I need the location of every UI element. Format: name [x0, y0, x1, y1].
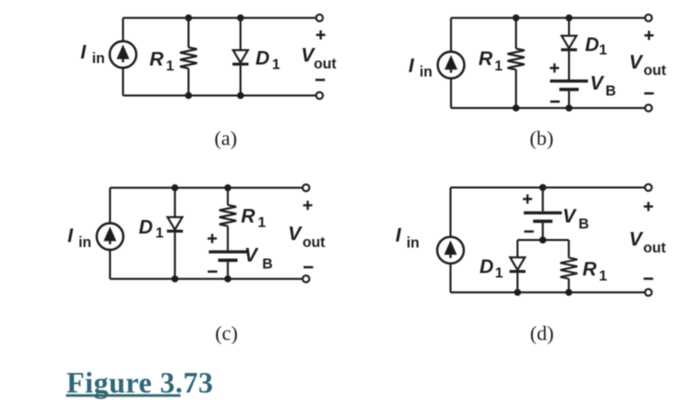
output terminal (a) bottom — [316, 92, 323, 99]
wire (d) middle rail — [518, 239, 569, 241]
junction dot (d) bottom R1 — [565, 289, 572, 296]
junction dot (a) bottom R1 — [185, 92, 192, 99]
wire (d) D1 branch upper — [517, 240, 519, 257]
wire (d) source branch lower — [450, 264, 452, 293]
svg-text:D: D — [480, 256, 494, 278]
diode D1 (c) — [167, 217, 183, 232]
output terminal (d) bottom — [645, 289, 652, 296]
label I_in (a) — [81, 42, 105, 67]
label V_out (d) — [629, 229, 666, 257]
minus sign battery (c) — [208, 270, 218, 272]
wire (b) top rail — [451, 17, 645, 19]
current source I_in (a) — [110, 41, 137, 68]
plus sign V_out (d) — [644, 202, 653, 211]
wire (b) D1 to battery — [568, 51, 570, 79]
svg-text:out: out — [644, 63, 667, 79]
label V_out (a) — [301, 45, 337, 73]
output terminal (c) top — [303, 184, 310, 191]
wire (b) D1 branch upper — [568, 18, 570, 36]
wire (b) source branch upper — [450, 18, 452, 52]
svg-text:V: V — [629, 51, 644, 73]
resistor R1 (a) — [180, 47, 197, 68]
svg-text:1: 1 — [495, 265, 503, 281]
svg-text:B: B — [606, 84, 616, 100]
label D1 (a) — [256, 47, 281, 73]
svg-text:(d): (d) — [530, 323, 554, 345]
svg-text:I: I — [68, 225, 74, 247]
junction dot (c) bottom battery — [224, 275, 231, 282]
svg-text:(b): (b) — [530, 128, 554, 150]
junction dot (b) bottom battery — [566, 105, 573, 112]
label V_B (d) — [563, 205, 589, 232]
output terminal (a) top — [316, 15, 323, 22]
junction dot (a) bottom D1 — [237, 92, 244, 99]
battery V_B (c) — [209, 250, 247, 262]
wire (a) R1 branch upper — [188, 18, 190, 48]
wire (d) top rail — [451, 187, 646, 189]
label D1 (d) — [480, 256, 504, 281]
junction dot (c) bottom D1 — [171, 275, 178, 282]
battery V_B (d) — [524, 211, 562, 223]
wire (b) R1 branch upper — [515, 18, 517, 49]
svg-text:V: V — [563, 205, 578, 227]
plus sign battery (c) — [208, 234, 217, 243]
output terminal (d) top — [645, 184, 652, 191]
current source I_in (b) — [438, 52, 465, 79]
wire (c) R1 to battery — [227, 226, 229, 250]
junction dot (b) bottom R1 — [513, 105, 520, 112]
wire (a) top rail — [123, 17, 316, 19]
wire (a) source branch upper — [122, 18, 124, 41]
svg-text:R: R — [150, 49, 164, 71]
label D1 (c) — [139, 216, 164, 241]
svg-text:(c): (c) — [215, 323, 238, 345]
wire (c) battery to bottom — [227, 262, 229, 279]
wire (c) top rail — [110, 187, 303, 189]
wire (b) source branch lower — [450, 78, 452, 108]
svg-text:1: 1 — [495, 58, 503, 74]
node dot (d) middle — [539, 237, 546, 244]
battery V_B (b) — [550, 80, 588, 92]
resistor R1 (d) — [560, 258, 577, 279]
wire (d) source branch upper — [450, 188, 452, 237]
wire (c) D1 branch lower — [174, 233, 176, 279]
svg-text:in: in — [420, 65, 433, 81]
svg-text:D: D — [585, 34, 599, 56]
minus sign battery (b) — [550, 100, 560, 102]
svg-text:1: 1 — [258, 215, 266, 231]
svg-text:V: V — [288, 223, 303, 245]
wire (c) bottom rail — [110, 278, 303, 280]
svg-text:R: R — [479, 48, 493, 70]
minus sign battery (d) — [524, 230, 534, 232]
svg-text:I: I — [409, 55, 415, 77]
wire (b) R1 branch lower — [515, 70, 517, 108]
current source I_in (c) — [97, 223, 124, 250]
svg-text:B: B — [262, 257, 272, 273]
svg-text:in: in — [407, 235, 420, 251]
label V_B (b) — [590, 73, 616, 100]
svg-text:1: 1 — [599, 42, 607, 58]
wire (a) bottom rail — [123, 95, 316, 97]
label D1 (b) — [585, 34, 607, 59]
figure title "Figure 3.73" — [66, 368, 213, 400]
plus sign V_out (c) — [303, 201, 312, 210]
svg-text:out: out — [314, 56, 337, 72]
wire (a) R1 branch lower — [188, 68, 190, 95]
junction dot (d) bottom D1 — [514, 289, 521, 296]
svg-text:1: 1 — [156, 225, 164, 241]
junction dot (b) top R1 — [513, 14, 520, 21]
output terminal (b) bottom — [645, 105, 652, 112]
wire (d) R1 branch lower — [568, 279, 570, 293]
junction dot (c) top D1 — [171, 184, 178, 191]
svg-text:(a): (a) — [214, 128, 237, 150]
junction dot (a) top R1 — [185, 14, 192, 21]
label R1 (a) — [150, 49, 175, 75]
output terminal (c) bottom — [303, 276, 310, 283]
svg-text:out: out — [303, 235, 326, 251]
svg-text:D: D — [139, 216, 153, 238]
junction dot (b) top D1 — [566, 14, 573, 21]
svg-text:V: V — [244, 245, 259, 267]
minus sign V_out (b) — [644, 92, 654, 94]
svg-text:V: V — [590, 73, 605, 95]
diode D1 (d) — [510, 257, 526, 273]
wire (a) D1 branch lower — [240, 66, 242, 96]
resistor R1 (b) — [508, 49, 525, 70]
svg-text:in: in — [92, 51, 105, 67]
current source I_in (d) — [437, 237, 464, 264]
junction dot (c) top R1 — [224, 184, 231, 191]
diode D1 (a) — [233, 50, 249, 66]
minus sign V_out (d) — [644, 278, 654, 280]
wire (c) source branch upper — [109, 188, 111, 223]
wire (d) bottom rail — [451, 291, 646, 293]
plus sign battery (d) — [523, 194, 532, 203]
wire (a) D1 branch upper — [240, 18, 242, 50]
svg-text:1: 1 — [599, 268, 607, 284]
wire (a) source branch lower — [122, 68, 124, 96]
resistor R1 (c) — [219, 205, 236, 226]
wire (d) D1 branch lower — [517, 273, 519, 293]
wire (d) R1 branch upper — [568, 240, 570, 258]
junction dot (d) top battery — [539, 184, 546, 191]
label R1 (c) — [241, 205, 266, 231]
label I_in (d) — [396, 224, 420, 251]
svg-text:R: R — [241, 205, 255, 227]
wire (b) battery to bottom — [568, 91, 570, 108]
plus sign V_out (b) — [644, 31, 653, 40]
diode D1 (b) — [561, 36, 577, 52]
plus sign V_out (a) — [316, 30, 325, 39]
wire (c) D1 branch upper — [174, 188, 176, 217]
svg-text:D: D — [256, 47, 270, 69]
label V_out (c) — [288, 223, 325, 251]
label R1 (b) — [479, 48, 503, 74]
plus sign battery (b) — [550, 63, 559, 72]
label I_in (b) — [409, 55, 433, 81]
label V_B (c) — [244, 245, 272, 273]
wire (c) source branch lower — [109, 249, 111, 279]
label R1 (d) — [583, 258, 608, 284]
minus sign V_out (a) — [315, 79, 325, 81]
svg-text:R: R — [583, 258, 597, 280]
output terminal (b) top — [645, 15, 652, 22]
svg-text:out: out — [643, 241, 666, 257]
svg-text:I: I — [396, 224, 402, 246]
minus sign V_out (c) — [304, 266, 314, 268]
label I_in (c) — [68, 225, 92, 251]
svg-text:I: I — [81, 42, 87, 64]
svg-text:in: in — [79, 235, 92, 251]
svg-text:1: 1 — [272, 57, 280, 73]
label V_out (b) — [629, 51, 666, 79]
svg-text:1: 1 — [166, 58, 174, 74]
wire (b) bottom rail — [451, 107, 645, 109]
wire (c) R1 branch upper — [227, 188, 229, 205]
wire (d) battery to node — [542, 223, 544, 240]
svg-text:B: B — [579, 217, 589, 233]
junction dot (a) top D1 — [237, 14, 244, 21]
svg-text:V: V — [629, 229, 644, 251]
wire (d) battery branch upper — [542, 188, 544, 212]
